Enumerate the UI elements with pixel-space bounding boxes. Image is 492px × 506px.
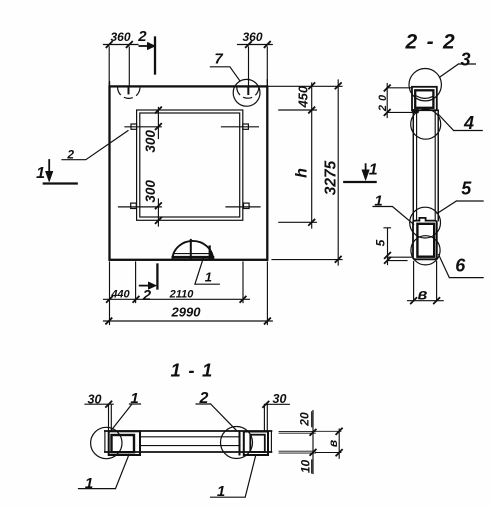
svg-text:2: 2 [142, 287, 152, 304]
svg-text:1: 1 [374, 193, 382, 210]
svg-text:300: 300 [143, 130, 158, 153]
svg-text:2 - 2: 2 - 2 [404, 31, 456, 54]
svg-text:в: в [326, 440, 340, 447]
svg-text:450: 450 [296, 85, 311, 108]
svg-text:3275: 3275 [322, 160, 339, 195]
svg-text:1: 1 [130, 390, 138, 407]
svg-text:30: 30 [273, 392, 287, 406]
svg-text:1 - 1: 1 - 1 [170, 360, 213, 381]
svg-text:30: 30 [88, 393, 102, 407]
svg-text:2: 2 [66, 148, 74, 162]
svg-text:20: 20 [298, 412, 312, 427]
svg-text:300: 300 [143, 180, 158, 203]
svg-text:2990: 2990 [171, 305, 202, 320]
svg-text:1: 1 [217, 483, 225, 500]
svg-text:360: 360 [242, 30, 262, 44]
svg-text:6: 6 [455, 256, 466, 276]
svg-text:3: 3 [460, 50, 470, 70]
svg-text:1: 1 [85, 475, 93, 492]
svg-text:1: 1 [369, 162, 378, 179]
svg-text:2110: 2110 [169, 289, 195, 301]
svg-text:5: 5 [461, 179, 472, 199]
svg-text:20: 20 [377, 91, 389, 112]
svg-text:в: в [418, 287, 428, 304]
svg-text:440: 440 [110, 289, 130, 301]
svg-text:2: 2 [137, 28, 147, 45]
svg-text:10: 10 [298, 460, 312, 474]
svg-text:360: 360 [110, 30, 130, 44]
svg-text:1: 1 [36, 165, 45, 182]
svg-text:1: 1 [205, 270, 212, 285]
svg-text:7: 7 [214, 51, 223, 68]
svg-text:2: 2 [199, 390, 209, 407]
svg-text:4: 4 [463, 113, 474, 133]
svg-text:5: 5 [374, 239, 388, 246]
svg-text:h: h [294, 168, 311, 178]
